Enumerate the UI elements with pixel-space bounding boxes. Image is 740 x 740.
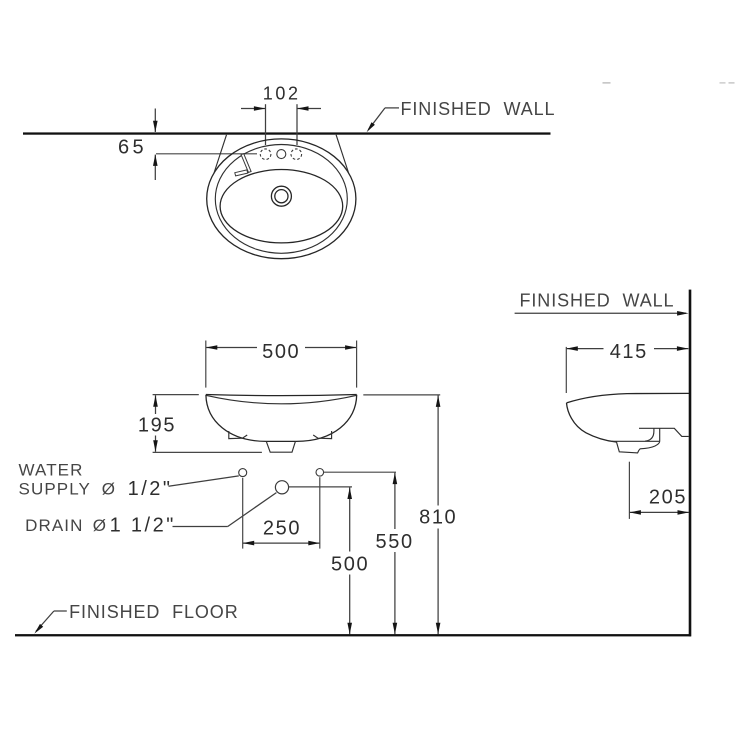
dimension 195 lower ext line xyxy=(153,451,262,453)
side view mounting line xyxy=(639,428,689,436)
dimension 415 extension line xyxy=(565,347,567,393)
svg-text:1/2": 1/2" xyxy=(131,515,176,537)
drain extension line xyxy=(289,486,352,488)
faucet lever handle (top view) xyxy=(235,170,248,176)
dimension 195 line lower xyxy=(155,436,157,452)
faucet hole left (dashed) xyxy=(260,149,271,160)
finished wall line (top view) xyxy=(23,132,551,134)
front view rim top line xyxy=(206,395,357,396)
sink top view drain inner circle xyxy=(275,190,288,203)
dimension 500 width line right xyxy=(305,347,357,349)
drain leader xyxy=(173,526,228,528)
svg-text:1: 1 xyxy=(110,515,124,537)
sink top view deck ellipse xyxy=(215,145,347,254)
svg-text:195: 195 xyxy=(138,414,176,436)
dimension 205 extension line xyxy=(628,462,630,519)
sink top view basin ellipse xyxy=(220,170,343,243)
dimension 250 line xyxy=(243,542,320,544)
side view overflow inner line xyxy=(645,428,654,441)
dimension 102 right arrow line xyxy=(297,108,321,110)
water supply extension line xyxy=(324,471,396,473)
svg-text:810: 810 xyxy=(419,507,457,529)
svg-text:Ø: Ø xyxy=(93,516,107,535)
finished floor line xyxy=(15,634,691,636)
svg-text:500: 500 xyxy=(262,341,300,363)
faucet hole center (solid) xyxy=(277,150,286,159)
dimension 415 line left xyxy=(566,348,603,350)
side view overflow outer line xyxy=(659,428,661,441)
svg-text:550: 550 xyxy=(376,531,414,553)
dimension 195 line upper xyxy=(155,395,157,414)
svg-text:65: 65 xyxy=(118,137,147,159)
finished wall line (side view, vertical) xyxy=(689,290,692,637)
dimension 102 extension lines xyxy=(265,104,267,145)
svg-text:FINISHED WALL: FINISHED WALL xyxy=(520,291,675,311)
front view rim band lower edge xyxy=(206,395,356,403)
dimension 550 line xyxy=(394,473,396,529)
svg-text:Ø: Ø xyxy=(102,480,116,499)
dimension 195 upper ext line xyxy=(153,394,199,396)
dimension 250 extension lines xyxy=(242,478,244,549)
svg-text:250: 250 xyxy=(263,518,301,540)
front view drain trap xyxy=(266,441,295,452)
water supply leader xyxy=(169,476,239,486)
dimension 65 extension line to hole row xyxy=(156,153,257,155)
side view trap cover xyxy=(616,441,659,453)
sink top view outer rim ellipse xyxy=(207,139,356,259)
dimension 65 upper arrow xyxy=(154,109,156,133)
dimension 810 line xyxy=(437,395,439,505)
sink top view back trapezoid slant right xyxy=(336,135,349,173)
side view bowl bottom line xyxy=(612,440,660,442)
svg-text:205: 205 xyxy=(649,486,687,508)
front view bowl outline xyxy=(206,395,357,442)
svg-text:102: 102 xyxy=(263,84,301,104)
side view bowl front curve xyxy=(567,403,617,442)
svg-text:DRAIN: DRAIN xyxy=(25,516,83,535)
sink top view drain outer circle xyxy=(271,186,291,206)
dimension 65 lower arrow xyxy=(154,155,156,180)
dimension 205 line xyxy=(629,511,689,513)
faint artifact dashes top right xyxy=(603,82,611,83)
finished wall leader arrow (side view) xyxy=(515,312,686,314)
svg-text:FINISHED FLOOR: FINISHED FLOOR xyxy=(69,602,239,622)
side view rim line xyxy=(567,393,690,403)
svg-text:415: 415 xyxy=(610,341,648,363)
front view right foot xyxy=(313,431,331,439)
front view left foot xyxy=(229,431,247,439)
water supply circle right xyxy=(316,469,324,477)
rim right extension line xyxy=(363,394,440,396)
svg-text:SUPPLY: SUPPLY xyxy=(19,480,91,499)
drain circle xyxy=(275,481,288,494)
sink top view back trapezoid slant left xyxy=(214,135,227,173)
water supply circle left xyxy=(239,469,247,477)
svg-text:1/2": 1/2" xyxy=(128,478,173,500)
dimension 500 width extension lines xyxy=(205,341,207,388)
dimension 500 width line left xyxy=(206,347,257,349)
dimension 102 left arrow line xyxy=(241,108,265,110)
svg-text:500: 500 xyxy=(331,553,369,575)
dimension 500 height line xyxy=(349,488,351,552)
faucet lever bar (top view) xyxy=(241,154,251,173)
dimension 415 line right xyxy=(654,348,688,350)
faucet hole right (dashed) xyxy=(291,149,302,160)
svg-text:WATER: WATER xyxy=(19,460,84,479)
svg-text:FINISHED WALL: FINISHED WALL xyxy=(401,99,556,119)
